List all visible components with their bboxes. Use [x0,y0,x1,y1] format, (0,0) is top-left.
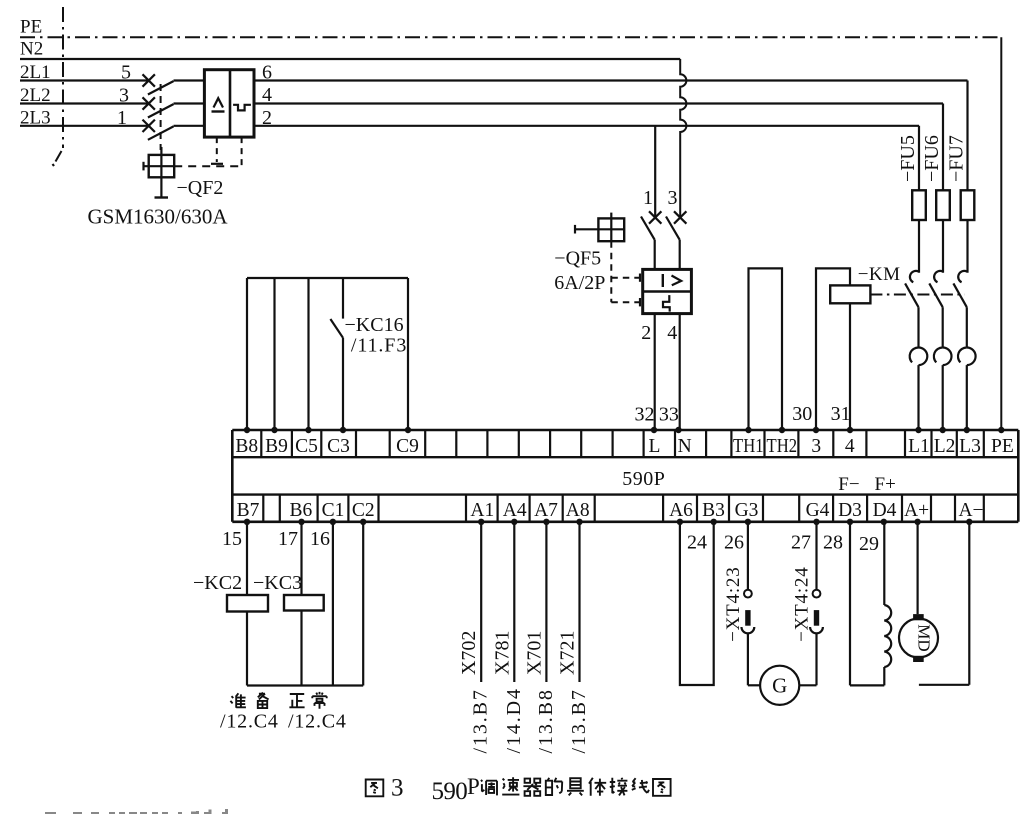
svg-text:−KC3: −KC3 [253,572,302,594]
svg-text:4: 4 [667,322,677,344]
svg-text:X702: X702 [458,631,480,675]
svg-text:TH1: TH1 [733,436,764,457]
svg-text:L1: L1 [908,436,930,457]
svg-text:A1: A1 [470,500,494,521]
svg-text:F−: F− [838,474,859,495]
svg-text:33: 33 [659,404,679,426]
svg-text:28: 28 [823,532,843,554]
svg-text:/12.C4: /12.C4 [288,711,347,733]
svg-text:C5: C5 [295,436,318,457]
svg-text:D4: D4 [873,500,897,521]
svg-text:3: 3 [811,436,821,457]
svg-text:15: 15 [222,528,242,550]
svg-text:X701: X701 [523,631,545,675]
svg-text:6A/2P: 6A/2P [554,272,605,294]
svg-text:F+: F+ [875,474,896,495]
svg-text:3: 3 [391,775,404,802]
svg-text:29: 29 [859,533,879,555]
svg-text:N2: N2 [20,39,43,60]
svg-text:/13.B8: /13.B8 [535,688,557,753]
svg-text:X781: X781 [491,631,513,675]
svg-text:3: 3 [668,187,678,209]
svg-text:/13.B7: /13.B7 [568,688,590,753]
svg-text:−XT4:23: −XT4:23 [723,566,744,641]
svg-text:A+: A+ [904,500,929,521]
svg-text:2: 2 [641,322,651,344]
svg-text:−QF2: −QF2 [177,177,224,199]
svg-text:A−: A− [958,500,983,521]
svg-text:C2: C2 [352,500,375,521]
svg-text:590: 590 [432,778,468,805]
svg-text:PE: PE [20,17,42,38]
svg-text:24: 24 [687,532,707,554]
svg-text:A6: A6 [669,500,693,521]
svg-text:C3: C3 [327,436,350,457]
svg-text:B6: B6 [290,500,313,521]
svg-text:−KC2: −KC2 [193,572,242,594]
svg-text:P: P [467,774,480,799]
svg-text:L2: L2 [934,436,956,457]
svg-text:X721: X721 [557,631,579,675]
svg-text:4: 4 [845,436,855,457]
svg-text:16: 16 [310,528,330,550]
svg-text:−FU7: −FU7 [946,135,968,182]
svg-text:1: 1 [643,187,653,209]
svg-text:C1: C1 [322,500,345,521]
svg-text:A4: A4 [503,500,527,521]
svg-text:−FU5: −FU5 [897,135,919,182]
svg-text:A7: A7 [534,500,558,521]
svg-text:G4: G4 [806,500,830,521]
svg-text:26: 26 [724,532,744,554]
svg-text:/12.C4: /12.C4 [220,711,279,733]
svg-text:L3: L3 [959,436,981,457]
svg-text:27: 27 [791,532,811,554]
svg-text:B7: B7 [237,500,260,521]
svg-text:/11.F3: /11.F3 [351,335,407,357]
svg-text:TH2: TH2 [767,436,798,457]
svg-text:C9: C9 [396,436,419,457]
svg-text:32: 32 [635,404,655,426]
svg-text:GSM1630/630A: GSM1630/630A [88,205,229,229]
svg-text:17: 17 [278,528,298,550]
svg-text:B9: B9 [265,436,288,457]
svg-text:−XT4:24: −XT4:24 [792,566,813,641]
svg-text:MD: MD [915,624,934,651]
svg-text:−QF5: −QF5 [554,248,601,270]
svg-text:31: 31 [831,403,851,425]
svg-text:/14.D4: /14.D4 [503,687,525,753]
svg-text:B3: B3 [702,500,725,521]
svg-text:/13.B7: /13.B7 [470,688,492,753]
svg-text:5: 5 [121,62,131,84]
svg-text:G: G [772,674,787,698]
svg-text:B8: B8 [235,436,258,457]
svg-text:L: L [649,436,661,457]
svg-text:D3: D3 [838,500,862,521]
svg-text:PE: PE [991,436,1014,457]
svg-text:−KM: −KM [858,264,901,285]
svg-text:A8: A8 [566,500,590,521]
svg-text:590P: 590P [622,468,665,490]
svg-text:G3: G3 [735,500,759,521]
svg-text:1: 1 [117,107,127,129]
svg-text:−FU6: −FU6 [921,135,943,182]
svg-text:30: 30 [792,403,812,425]
svg-text:−KC16: −KC16 [345,314,404,336]
svg-text:3: 3 [119,85,129,107]
svg-text:N: N [678,436,692,457]
